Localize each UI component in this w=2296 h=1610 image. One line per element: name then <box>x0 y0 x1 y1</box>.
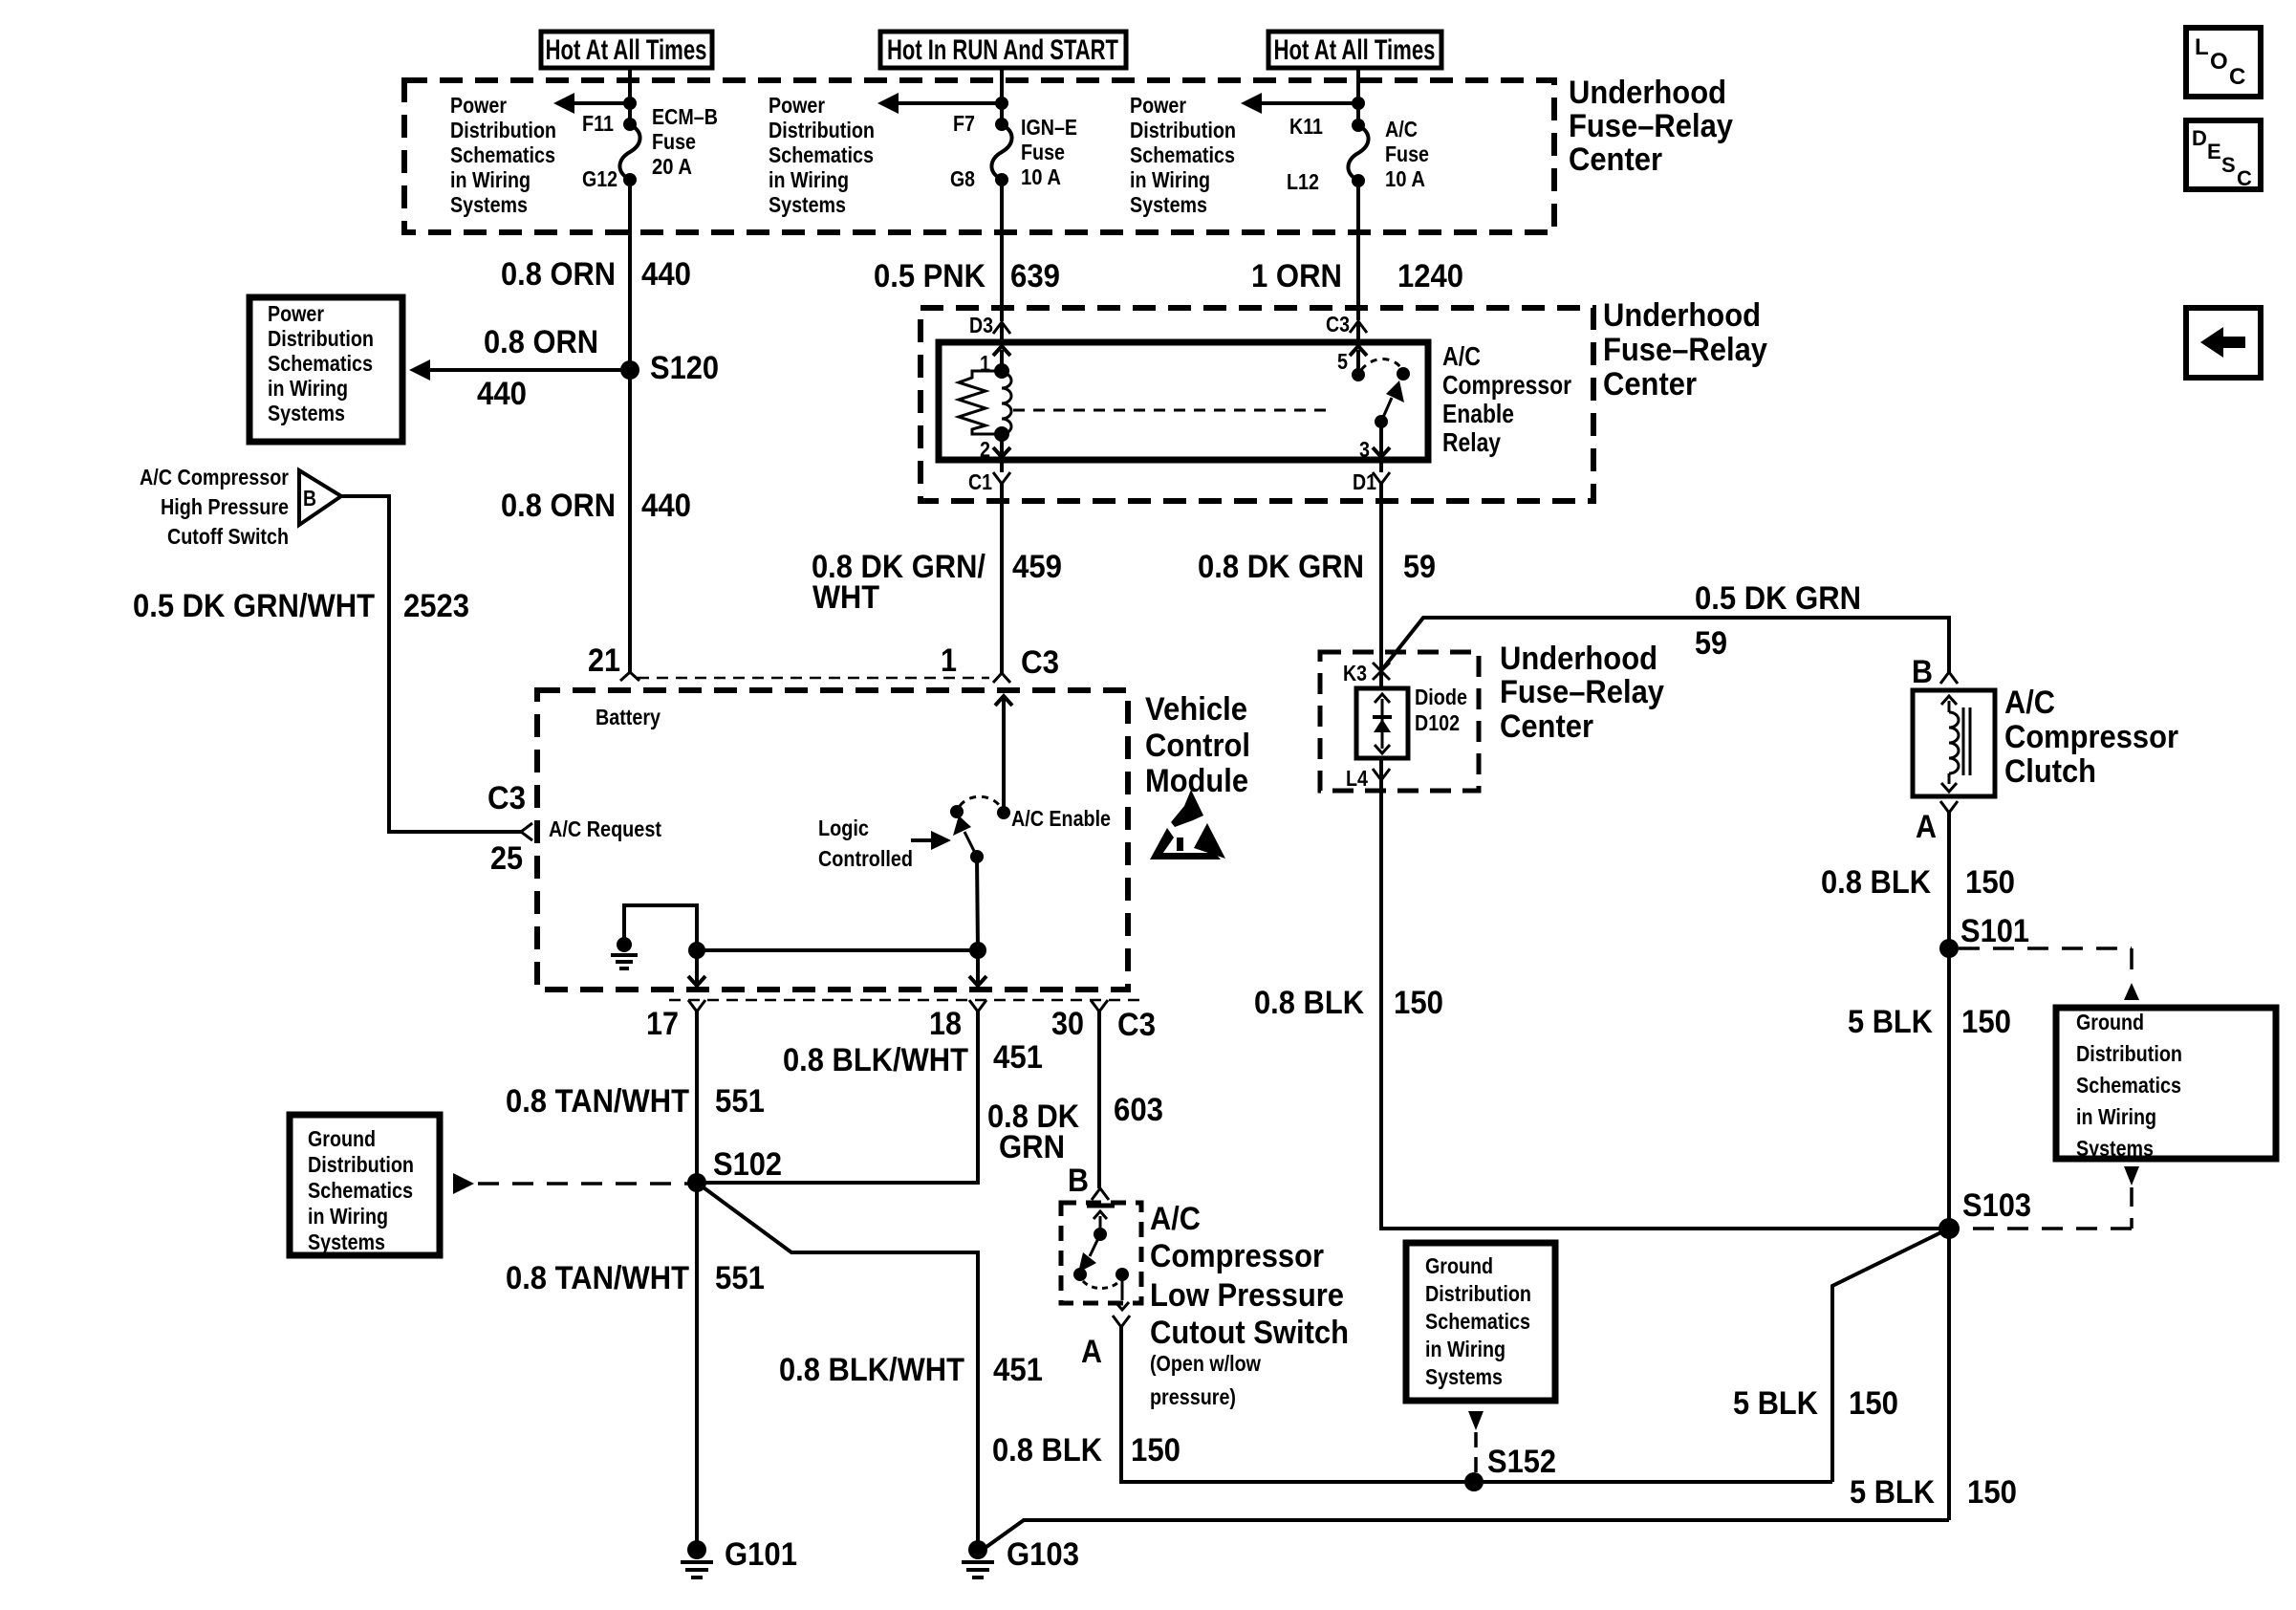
svg-text:Low Pressure: Low Pressure <box>1150 1277 1344 1314</box>
relay coil winding <box>1002 373 1011 434</box>
svg-text:G8: G8 <box>950 166 975 191</box>
svg-text:O: O <box>2210 49 2228 75</box>
relay switch throw (dashed arc) <box>1361 359 1401 370</box>
svg-text:0.8 BLK/WHT: 0.8 BLK/WHT <box>779 1352 964 1388</box>
svg-text:Center: Center <box>1569 141 1662 178</box>
note box: Ground Distribution Schematics in Wiring Systems (middle) <box>1406 1243 1555 1401</box>
svg-text:Clutch: Clutch <box>2004 753 2096 790</box>
connector C3 (relay) <box>1326 312 1367 342</box>
svg-text:Fuse–Relay: Fuse–Relay <box>1603 332 1767 368</box>
svg-text:S103: S103 <box>1962 1187 2031 1224</box>
connector C1 <box>968 460 1010 494</box>
svg-text:in Wiring: in Wiring <box>268 376 348 401</box>
arrow: logic controlled pointer <box>911 831 951 850</box>
svg-text:Distribution: Distribution <box>308 1152 414 1177</box>
pin 21 <box>588 642 639 681</box>
VCM switch arm with arrowhead <box>953 816 977 857</box>
svg-text:3: 3 <box>1359 437 1370 462</box>
svg-text:Logic: Logic <box>818 816 869 840</box>
dashed reference: S101 to ground distribution <box>1959 948 2139 1000</box>
wire: hot feed into IGN-E fuse <box>1000 68 1004 124</box>
svg-text:Hot At All Times: Hot At All Times <box>1274 34 1436 66</box>
label box: Hot At All Times (left) <box>541 32 712 68</box>
wire 59: K3 branch to A/C compressor clutch B <box>1383 618 1949 672</box>
underhood fuse-relay center (top dashed box) <box>404 80 1554 232</box>
svg-text:E: E <box>2207 140 2221 163</box>
dashed reference: ground distribution to S152 <box>1468 1411 1484 1477</box>
svg-text:10 A: 10 A <box>1021 164 1061 189</box>
connector C3 pin 25 (A/C Request) <box>487 780 661 877</box>
svg-text:Cutout Switch: Cutout Switch <box>1150 1315 1349 1351</box>
svg-text:17: 17 <box>646 1006 679 1042</box>
switch throw arc (dashed) <box>960 796 1000 806</box>
label: 0.8 BLK 150 (switch leg) <box>992 1432 1180 1469</box>
label: Logic Controlled <box>818 816 913 871</box>
svg-text:1240: 1240 <box>1397 258 1463 294</box>
label: Underhood Fuse-Relay Center (top) <box>1569 75 1733 178</box>
svg-text:Distribution: Distribution <box>450 118 556 142</box>
svg-text:440: 440 <box>641 256 691 293</box>
svg-text:25: 25 <box>490 840 523 877</box>
label: A/C Compressor Enable Relay <box>1442 341 1571 457</box>
svg-text:Compressor: Compressor <box>2004 719 2178 755</box>
arrow: to power distribution schematics (A/C) <box>1241 93 1365 114</box>
svg-text:Systems: Systems <box>1425 1364 1503 1389</box>
wire: hot feed into ECM-B fuse <box>628 68 632 124</box>
svg-text:Schematics: Schematics <box>769 142 874 167</box>
svg-text:150: 150 <box>1394 985 1443 1021</box>
svg-text:0.8 BLK: 0.8 BLK <box>1821 864 1931 901</box>
node S120 <box>620 350 719 386</box>
svg-text:0.8 BLK: 0.8 BLK <box>1254 985 1364 1021</box>
wire 440: ECM-B fuse to VCM pin 21 <box>628 180 632 672</box>
relay U: A/C Compressor Enable Relay (solid box) <box>939 342 1428 460</box>
svg-text:Distribution: Distribution <box>1425 1281 1531 1306</box>
svg-text:Diode: Diode <box>1415 685 1467 709</box>
svg-text:150: 150 <box>1131 1432 1180 1469</box>
label: 5 BLK 150 (bottom bus) <box>1850 1474 2017 1511</box>
label: 5 BLK 150 (S101-S103) <box>1848 1004 2011 1040</box>
svg-text:D3: D3 <box>969 313 993 337</box>
svg-text:0.8 BLK/WHT: 0.8 BLK/WHT <box>783 1042 968 1078</box>
svg-text:Systems: Systems <box>769 192 846 217</box>
svg-text:IGN–E: IGN–E <box>1021 115 1077 140</box>
VCM switch pivot <box>970 850 984 863</box>
relay pin 1 arrow <box>980 346 1010 376</box>
fuse A/C 10 A (K11/L12) <box>1287 114 1429 194</box>
wire: pin 1 into VCM (A/C Enable feed) <box>995 696 1012 813</box>
svg-text:Systems: Systems <box>308 1229 385 1254</box>
svg-text:in Wiring: in Wiring <box>308 1204 388 1229</box>
svg-text:Underhood: Underhood <box>1569 75 1726 111</box>
dashed reference: ground distribution to S103 <box>1959 1166 2139 1229</box>
label: 0.8 BLK/WHT 451 (lower) <box>779 1352 1043 1388</box>
connector D3 <box>969 313 1010 342</box>
wire 639: IGN-E fuse to relay D3 <box>1000 180 1004 321</box>
wire 59: relay D1 down to K3 <box>1379 484 1383 671</box>
note: Power Distribution Schematics in Wiring Systems (ECM-B) <box>450 93 556 217</box>
svg-text:Distribution: Distribution <box>769 118 875 142</box>
wire 603: VCM pin 30 to low pressure switch B <box>1097 1028 1101 1188</box>
VCM connector line (top, thin dashed) <box>638 677 989 680</box>
svg-text:459: 459 <box>1012 549 1062 585</box>
svg-text:Fuse: Fuse <box>1021 140 1065 164</box>
svg-text:Fuse: Fuse <box>652 129 696 154</box>
svg-text:440: 440 <box>641 488 691 524</box>
svg-text:C3: C3 <box>1021 644 1059 681</box>
label: 0.8 DK GRN/ WHT 459 <box>812 549 1062 616</box>
ESD sensitivity symbol <box>1150 790 1225 859</box>
svg-text:in Wiring: in Wiring <box>2076 1104 2156 1129</box>
underhood fuse-relay center (diode dashed box) <box>1320 652 1479 791</box>
svg-text:ECM–B: ECM–B <box>652 104 718 129</box>
svg-text:1: 1 <box>941 642 957 679</box>
node S103 <box>1939 1187 2031 1239</box>
label box: Hot At All Times (right) <box>1268 32 1441 68</box>
note: Power Distribution Schematics in Wiring Systems (IGN-E) <box>769 93 875 217</box>
svg-text:Control: Control <box>1145 728 1250 764</box>
svg-text:59: 59 <box>1403 549 1436 585</box>
svg-text:D102: D102 <box>1415 710 1460 735</box>
label: 0.5 DK GRN/WHT 2523 <box>133 588 469 624</box>
svg-text:639: 639 <box>1010 258 1060 294</box>
wire: switch pivot to pin 18 node <box>977 857 978 950</box>
svg-text:1 ORN: 1 ORN <box>1251 258 1342 294</box>
wire 1240: A/C fuse to relay C3 <box>1356 181 1360 320</box>
svg-text:0.5 DK GRN: 0.5 DK GRN <box>1695 580 1861 617</box>
svg-text:A: A <box>1916 809 1937 845</box>
svg-text:in Wiring: in Wiring <box>450 167 531 192</box>
node: pin 18 junction <box>969 942 986 959</box>
back-arrow reference box <box>2186 308 2261 378</box>
svg-text:A: A <box>1081 1334 1102 1370</box>
svg-text:(Open w/low: (Open w/low <box>1150 1351 1261 1376</box>
svg-text:Enable: Enable <box>1442 399 1514 428</box>
dashed reference: ground distribution to S102 <box>453 1173 688 1194</box>
svg-text:Hot In RUN And START: Hot In RUN And START <box>887 34 1118 66</box>
relay coil resistor <box>959 371 1002 434</box>
svg-text:Battery: Battery <box>596 705 661 729</box>
svg-text:0.8 ORN: 0.8 ORN <box>501 256 616 293</box>
svg-text:B: B <box>1912 654 1933 690</box>
svg-text:in Wiring: in Wiring <box>769 167 849 192</box>
svg-text:F11: F11 <box>582 111 614 136</box>
svg-text:Ground: Ground <box>2076 1010 2144 1034</box>
connector triangle B: A/C Compressor High Pressure Cutoff Switch <box>140 465 341 549</box>
label: 0.8 TAN/WHT 551 (lower) <box>506 1260 765 1296</box>
svg-text:S: S <box>2221 153 2236 177</box>
svg-text:Ground: Ground <box>1425 1253 1493 1278</box>
svg-text:20 A: 20 A <box>652 154 692 179</box>
label: 0.8 ORN 440 (upper) <box>501 256 691 293</box>
svg-text:Systems: Systems <box>268 401 345 425</box>
svg-text:Distribution: Distribution <box>1130 118 1236 142</box>
svg-text:Distribution: Distribution <box>2076 1041 2182 1066</box>
svg-text:C3: C3 <box>487 780 526 816</box>
svg-text:A/C: A/C <box>1385 117 1418 141</box>
svg-text:K3: K3 <box>1343 661 1367 685</box>
arrow: to power distribution schematics (IGN-E) <box>877 93 1008 114</box>
svg-text:Power: Power <box>1130 93 1186 118</box>
vehicle control module (dashed box) <box>537 690 1128 990</box>
note box: Power Distribution Schematics in Wiring Systems <box>249 297 402 442</box>
svg-text:Controlled: Controlled <box>818 846 913 871</box>
svg-text:Underhood: Underhood <box>1500 641 1657 677</box>
relay pin 5 arrow <box>1337 346 1367 374</box>
svg-text:A/C Request: A/C Request <box>549 816 661 841</box>
svg-text:150: 150 <box>1849 1385 1898 1422</box>
wire 150: switch A to S152 bus <box>1121 1327 1832 1482</box>
relay link (coil to switch, dashed) <box>1013 409 1331 412</box>
label: 0.8 BLK 150 (diode leg) <box>1254 985 1443 1021</box>
label: 0.8 BLK 150 (clutch leg) <box>1821 864 2015 901</box>
svg-text:551: 551 <box>715 1083 765 1120</box>
svg-text:18: 18 <box>929 1006 962 1042</box>
svg-text:Fuse–Relay: Fuse–Relay <box>1569 108 1733 144</box>
svg-text:59: 59 <box>1695 625 1727 662</box>
wire 451: VCM pin 18 to S102 <box>697 1028 978 1183</box>
relay coil node bottom (pin 2) <box>994 426 1009 442</box>
connector L4 <box>1346 766 1390 791</box>
node: pin 17 junction <box>688 942 705 959</box>
fuse IGN-E 10 A (F7/G8) <box>950 111 1077 191</box>
svg-text:S101: S101 <box>1960 913 2029 949</box>
svg-text:Schematics: Schematics <box>268 351 373 376</box>
svg-text:L12: L12 <box>1287 169 1319 194</box>
svg-text:Center: Center <box>1500 708 1593 745</box>
relay coil node top (pin 1) <box>994 363 1009 379</box>
svg-text:Schematics: Schematics <box>1130 142 1235 167</box>
relay switch common (pin 3) <box>1375 415 1388 428</box>
svg-text:Schematics: Schematics <box>450 142 555 167</box>
svg-text:C1: C1 <box>968 469 992 494</box>
label: 1 ORN 1240 <box>1251 258 1463 294</box>
label: Underhood Fuse-Relay Center (diode) <box>1500 641 1664 745</box>
label: A/C Compressor Low Pressure Cutout Switch <box>1150 1201 1349 1409</box>
svg-text:150: 150 <box>1961 1004 2011 1040</box>
svg-text:Ground: Ground <box>308 1126 376 1151</box>
svg-text:B: B <box>1068 1163 1089 1199</box>
label: 0.8 ORN 440 (lower) <box>501 488 691 524</box>
relay pin 3 arrow <box>1359 422 1390 462</box>
arrow: to power distribution schematics (ECM-B) <box>553 93 637 114</box>
svg-text:WHT: WHT <box>812 579 879 616</box>
label: 0.8 DK GRN 59 <box>1198 549 1436 585</box>
svg-text:A/C Enable: A/C Enable <box>1011 806 1111 831</box>
switch: A/C Compressor Low Pressure Cutout Switch <box>1061 1163 1141 1370</box>
svg-text:451: 451 <box>993 1352 1043 1388</box>
svg-text:551: 551 <box>715 1260 765 1296</box>
svg-text:High Pressure: High Pressure <box>161 494 289 519</box>
svg-text:440: 440 <box>477 376 527 412</box>
fuse ECM-B 20 A (F11/G12) <box>582 104 718 191</box>
svg-text:21: 21 <box>588 642 620 679</box>
svg-text:5: 5 <box>1337 349 1348 374</box>
ground G101 <box>681 1536 797 1577</box>
svg-text:Power: Power <box>450 93 507 118</box>
DESC reference box <box>2186 120 2261 190</box>
svg-text:2: 2 <box>980 437 990 462</box>
svg-text:Systems: Systems <box>450 192 528 217</box>
svg-text:F7: F7 <box>953 111 975 136</box>
relay switch arm with arrowhead <box>1381 381 1404 422</box>
svg-text:Compressor: Compressor <box>1150 1238 1324 1274</box>
svg-text:Fuse–Relay: Fuse–Relay <box>1500 674 1664 710</box>
svg-text:A/C Compressor: A/C Compressor <box>140 465 289 490</box>
diode D102 <box>1356 685 1467 758</box>
svg-text:A/C: A/C <box>1442 341 1481 371</box>
svg-text:Distribution: Distribution <box>268 326 374 351</box>
node S101 <box>1939 913 2029 958</box>
wire 451: S102 to G103 <box>697 1183 978 1550</box>
svg-text:Vehicle: Vehicle <box>1145 691 1247 728</box>
svg-text:0.8 ORN: 0.8 ORN <box>484 324 598 360</box>
svg-text:A/C: A/C <box>2004 685 2055 721</box>
svg-text:GRN: GRN <box>999 1129 1065 1165</box>
relay switch fixed contact (pin 5) <box>1352 368 1365 381</box>
svg-text:in Wiring: in Wiring <box>1425 1337 1505 1361</box>
svg-text:in Wiring: in Wiring <box>1130 167 1210 192</box>
connector D1 <box>1353 460 1390 494</box>
svg-text:150: 150 <box>1967 1474 2017 1511</box>
svg-text:L4: L4 <box>1346 766 1368 791</box>
svg-text:451: 451 <box>993 1039 1043 1076</box>
svg-text:G12: G12 <box>582 166 617 191</box>
VCM connector line (bottom, thin dashed) <box>669 999 1142 1002</box>
svg-text:0.5 DK GRN/WHT: 0.5 DK GRN/WHT <box>133 588 375 624</box>
svg-text:0.8 ORN: 0.8 ORN <box>501 488 616 524</box>
svg-text:C: C <box>2237 166 2252 190</box>
svg-text:C3: C3 <box>1117 1007 1156 1043</box>
svg-text:Hot At All Times: Hot At All Times <box>546 34 707 66</box>
pin 18 arrow (inside VCM) <box>969 950 986 986</box>
svg-text:S102: S102 <box>713 1146 782 1183</box>
svg-text:G101: G101 <box>725 1536 797 1573</box>
pin 1 / C3 <box>941 642 1059 683</box>
note box: Ground Distribution Schematics in Wiring Systems (right) <box>2056 1008 2276 1161</box>
connector K3 <box>1343 661 1390 685</box>
svg-text:pressure): pressure) <box>1150 1384 1236 1409</box>
node S102 <box>687 1146 782 1192</box>
svg-text:Systems: Systems <box>2076 1136 2154 1161</box>
svg-text:Relay: Relay <box>1442 427 1501 457</box>
relay pin 2 arrow <box>980 434 1010 462</box>
svg-text:5 BLK: 5 BLK <box>1848 1004 1933 1040</box>
svg-text:0.8 TAN/WHT: 0.8 TAN/WHT <box>506 1260 689 1296</box>
label: Vehicle Control Module <box>1145 691 1250 799</box>
wire: internal ground bus <box>624 905 978 950</box>
wire: hot feed into A/C fuse <box>1356 68 1360 125</box>
svg-text:30: 30 <box>1051 1006 1084 1042</box>
svg-text:Compressor: Compressor <box>1442 370 1571 400</box>
svg-text:Schematics: Schematics <box>2076 1073 2181 1098</box>
internal ground <box>611 937 638 968</box>
wire 2523: high pressure switch to VCM A/C Request <box>341 496 522 832</box>
svg-text:Cutoff Switch: Cutoff Switch <box>167 524 289 549</box>
svg-text:5 BLK: 5 BLK <box>1733 1385 1818 1422</box>
underhood fuse-relay center (relay dashed box) <box>921 308 1593 501</box>
svg-text:A/C: A/C <box>1150 1201 1201 1237</box>
svg-text:0.8 DK GRN: 0.8 DK GRN <box>1198 549 1364 585</box>
label: 0.8 DK GRN 603 <box>987 1092 1163 1165</box>
note: Power Distribution Schematics in Wiring Systems (A/C) <box>1130 93 1236 217</box>
svg-text:5 BLK: 5 BLK <box>1850 1474 1935 1511</box>
svg-text:603: 603 <box>1114 1092 1163 1128</box>
label: Underhood Fuse-Relay Center (relay) <box>1603 297 1767 402</box>
svg-text:Module: Module <box>1145 763 1248 799</box>
relay switch upper contact <box>1397 367 1410 381</box>
label: 0.5 DK GRN 59 <box>1695 580 1861 662</box>
svg-text:C: C <box>2229 64 2245 90</box>
ground G103 <box>962 1536 1079 1577</box>
label: 0.8 TAN/WHT 551 (upper) <box>506 1083 765 1120</box>
A/C Enable switch contact (left) <box>950 805 964 818</box>
A/C compressor clutch <box>1912 654 2178 845</box>
pin 18 connector <box>929 1000 986 1042</box>
svg-text:0.8 TAN/WHT: 0.8 TAN/WHT <box>506 1083 689 1120</box>
svg-text:C3: C3 <box>1326 312 1350 337</box>
svg-text:S152: S152 <box>1487 1444 1556 1480</box>
svg-text:Center: Center <box>1603 366 1697 402</box>
pin 30 / C3 connector <box>1051 1000 1156 1043</box>
svg-text:L: L <box>2195 34 2209 60</box>
label: 0.8 BLK/WHT 451 (upper) <box>783 1039 1043 1078</box>
label box: Hot In RUN And START <box>880 32 1126 68</box>
note box: Ground Distribution Schematics in Wiring Systems (left) <box>290 1115 440 1255</box>
svg-text:B: B <box>303 486 316 511</box>
label: 5 BLK 150 (S152 riser) <box>1733 1385 1898 1422</box>
pin 17 arrow (inside VCM) <box>688 950 705 986</box>
wire 150: clutch A to S103 and ground bus <box>1947 813 1951 1520</box>
A/C Enable switch contact (right) <box>997 806 1010 819</box>
LOC reference box <box>2186 28 2261 97</box>
wire: S152 bus up to S103 <box>1832 1229 1949 1482</box>
svg-text:K11: K11 <box>1289 114 1323 139</box>
svg-text:0.8 BLK: 0.8 BLK <box>992 1432 1102 1469</box>
arrow: S120 to power distribution box <box>409 324 630 412</box>
svg-text:150: 150 <box>1965 864 2015 901</box>
label: 0.5 PNK 639 <box>874 258 1060 294</box>
svg-text:0.5 PNK: 0.5 PNK <box>874 258 986 294</box>
svg-text:Fuse: Fuse <box>1385 141 1429 166</box>
node S152 <box>1464 1444 1556 1491</box>
wire 551: VCM pin 17 to G101 <box>695 1028 699 1550</box>
wire: K3 to diode <box>1379 671 1383 690</box>
svg-text:Schematics: Schematics <box>1425 1309 1530 1334</box>
svg-text:Underhood: Underhood <box>1603 297 1761 334</box>
svg-text:S120: S120 <box>650 350 719 386</box>
svg-text:Schematics: Schematics <box>308 1178 413 1203</box>
svg-text:D: D <box>2192 126 2207 150</box>
svg-text:Power: Power <box>769 93 825 118</box>
svg-text:2523: 2523 <box>403 588 469 624</box>
wire 150: G103 to S103 ground bus <box>980 1520 1949 1552</box>
wire 459: relay C1 to VCM pin 1 <box>1000 484 1004 674</box>
svg-text:10 A: 10 A <box>1385 166 1425 191</box>
svg-text:Systems: Systems <box>1130 192 1207 217</box>
pin 17 connector <box>646 1000 705 1042</box>
wire 150: L4 down and across to S103 <box>1381 758 1949 1229</box>
svg-text:G103: G103 <box>1007 1536 1079 1573</box>
svg-text:Power: Power <box>268 301 324 326</box>
